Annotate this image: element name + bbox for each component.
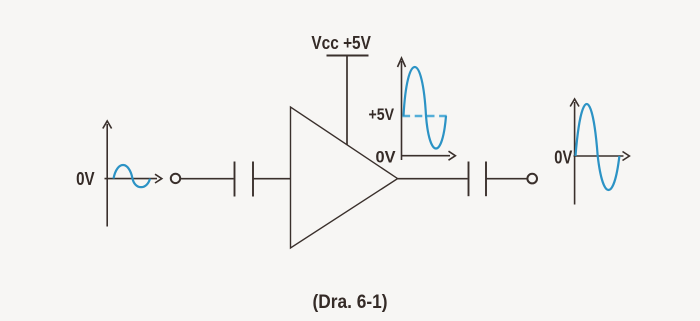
wire amplifier output to C2 xyxy=(398,178,468,180)
Vcc supply rail bar xyxy=(327,55,369,57)
output waveform horizontal axis xyxy=(402,151,456,160)
svg-text:(Dra. 6-1): (Dra. 6-1) xyxy=(313,292,388,313)
final output sine wave xyxy=(576,104,620,190)
wire C1 to amplifier input xyxy=(253,178,290,180)
capacitor C2 xyxy=(469,162,487,197)
input terminal circle xyxy=(171,174,180,183)
svg-text:Vcc +5V: Vcc +5V xyxy=(311,33,371,53)
wire input terminal to C1 xyxy=(181,178,234,180)
svg-text:+5V: +5V xyxy=(369,105,395,124)
op-amp amplifier triangle xyxy=(291,107,398,248)
final waveform vertical axis xyxy=(570,99,579,205)
output terminal circle xyxy=(527,174,537,184)
input waveform vertical axis xyxy=(103,121,112,227)
svg-text:0V: 0V xyxy=(554,148,572,168)
capacitor C1 xyxy=(235,162,254,197)
output waveform vertical axis xyxy=(398,58,406,160)
output sine wave at +5V offset xyxy=(404,67,447,148)
+5V dashed level line xyxy=(403,115,452,117)
final waveform horizontal axis xyxy=(574,152,630,161)
input sine wave xyxy=(114,165,151,187)
input waveform horizontal axis xyxy=(105,174,162,183)
svg-text:0V: 0V xyxy=(76,169,95,189)
wire Vcc to amplifier xyxy=(346,56,348,146)
wire C2 to output terminal xyxy=(486,178,527,180)
svg-text:0V: 0V xyxy=(376,148,397,167)
